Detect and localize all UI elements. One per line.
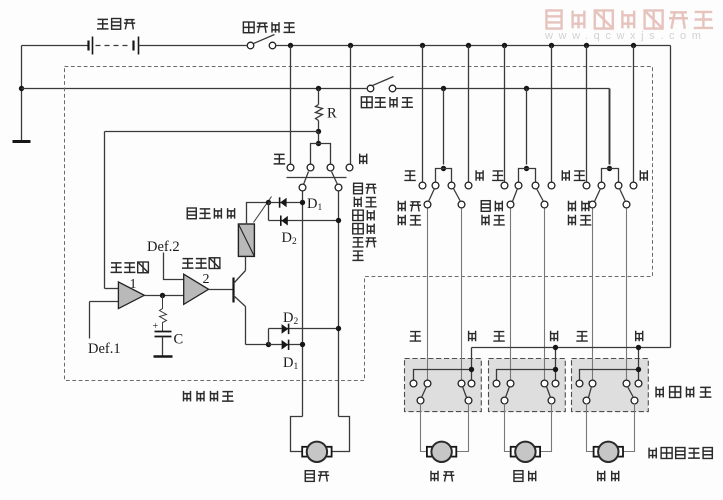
wire rr-box down wire from master	[626, 209, 628, 381]
wire rf-switch stem	[443, 89, 445, 165]
svg-text:D2: D2	[283, 310, 298, 327]
wire rr-switch slant right	[620, 189, 626, 202]
motor 左前	[302, 447, 308, 457]
node D1 to left output	[300, 200, 305, 205]
wire battery left lead / chassis lead	[22, 45, 89, 47]
watermark 汽车维修技术网	[546, 10, 561, 28]
wire master stem bracket	[311, 144, 331, 165]
wire rr-switch bracket	[602, 169, 619, 183]
window switch box lr-box	[489, 359, 566, 412]
rf-switch contacts	[419, 182, 426, 189]
node lr-down tap	[549, 43, 554, 48]
wire comp1 lower input	[90, 301, 119, 303]
wire master output left	[302, 192, 304, 417]
wire master down feed	[350, 46, 352, 165]
svg-text:D1: D1	[283, 355, 298, 372]
wire rf-box up wire from master	[427, 209, 429, 381]
label 右前 motor	[431, 471, 438, 482]
label master 降	[360, 154, 367, 165]
node lr stem tap	[524, 86, 529, 91]
wire rr-switch slant left	[595, 189, 601, 202]
node comp1 output	[160, 293, 165, 298]
node lr-box jumper	[553, 367, 558, 372]
label rf-box 降	[469, 331, 476, 342]
wire rf-switch slant right	[454, 189, 461, 202]
ground	[13, 140, 31, 143]
node rf stem tap	[441, 86, 446, 91]
node D2 to right output	[336, 218, 341, 223]
dashed box master switch and control unit	[65, 67, 653, 381]
lr-box contacts	[493, 380, 500, 387]
wire window power line	[472, 347, 671, 349]
node rf-up tap	[420, 43, 425, 48]
svg-text:R: R	[327, 106, 337, 122]
node rr-down tap	[631, 43, 636, 48]
wire coil diagonal	[254, 197, 272, 223]
node lr-up tap	[502, 43, 507, 48]
wire lr-switch bracket	[519, 169, 536, 183]
wire rr-box jumper	[580, 370, 639, 381]
label rr-box 降	[636, 331, 643, 342]
label rf-switch name	[398, 201, 405, 211]
wire rf-box down wire from master	[461, 209, 463, 381]
label 车窗电动机	[649, 448, 656, 459]
rf-box moving contacts	[417, 397, 424, 404]
diode D2 top	[269, 220, 339, 222]
wire master stem	[318, 132, 320, 144]
diode D2 bottom	[269, 328, 339, 330]
node resistor tap	[316, 86, 321, 91]
label 比较器 1	[111, 263, 123, 273]
wire comp2 output	[209, 289, 234, 291]
wire lr-box motor left	[505, 404, 511, 452]
diode D1 top	[269, 202, 302, 204]
label lr-box 降	[551, 331, 558, 342]
label 主控开关	[184, 391, 191, 402]
wire lr-switch slant left	[513, 189, 518, 202]
wire lr-switch stem	[526, 89, 528, 165]
label rf-box 升	[410, 332, 422, 342]
node master stem	[316, 141, 321, 146]
wire rf-box jumper	[414, 370, 472, 381]
wire lr-box up wire from master	[510, 209, 512, 381]
label rf-switch 升	[404, 171, 416, 181]
node rf-switch stem	[441, 166, 446, 171]
label 蓄电池	[97, 19, 109, 29]
label 锁止开关	[361, 97, 372, 108]
resistor to capacitor	[160, 296, 167, 332]
node rf-down tap	[466, 43, 471, 48]
node D1 bottom right	[300, 342, 305, 347]
wire ignition switch to top rail	[277, 45, 671, 47]
wire rr-box slant right	[628, 387, 634, 398]
label 左前 motor	[305, 471, 314, 482]
label rr-box 升	[576, 332, 588, 342]
label 左前开关及车窗控制单元	[354, 183, 363, 193]
node rr-box power tap	[636, 345, 641, 350]
node emitter junction	[266, 342, 271, 347]
wire Def.2 input	[164, 253, 184, 280]
lr-box moving contacts	[501, 397, 508, 404]
rr-box moving contacts	[583, 397, 590, 404]
wire comp1 upper input	[105, 288, 119, 290]
wire rr-box power feed	[638, 348, 640, 381]
wire lr-box slant right	[547, 387, 551, 398]
svg-text:Def.1: Def.1	[88, 341, 121, 357]
wire rr-switch down feed	[633, 46, 635, 183]
solenoid coil	[238, 224, 254, 256]
label lr-switch 降	[562, 170, 569, 181]
window switch box rr-box	[572, 359, 649, 412]
label 右后 motor	[598, 471, 605, 482]
wire rf-switch bracket	[436, 169, 452, 183]
battery 蓄电池	[87, 41, 89, 51]
svg-text:C: C	[174, 332, 184, 348]
lr-switch moving contacts	[507, 201, 514, 208]
svg-text:2: 2	[203, 272, 210, 287]
node lr-box power tap	[553, 345, 558, 350]
node coil junction	[266, 200, 271, 205]
rr-switch moving contacts	[589, 201, 596, 208]
wire master slant left	[304, 172, 309, 185]
wire lr-switch up feed	[504, 46, 506, 183]
wire lr-box slant left	[506, 387, 510, 398]
wire lr-box power feed	[555, 348, 557, 381]
label 电磁丝圈	[187, 208, 196, 219]
node resistor bottom	[316, 129, 321, 134]
label rr-switch 升	[574, 171, 586, 181]
lock switch 锁止开关	[367, 85, 374, 92]
window switch box rf-box	[405, 359, 482, 412]
op-amp comparator 2	[184, 274, 209, 304]
rr-box contacts	[576, 380, 583, 387]
rr-switch contacts	[583, 182, 590, 189]
label rr-switch name	[568, 201, 575, 211]
wire master slant right	[332, 172, 338, 185]
wire rf-switch slant left	[429, 189, 435, 202]
motor 右后	[594, 447, 600, 457]
label lr-switch 升	[492, 171, 504, 181]
wire rr-box motor left	[587, 404, 594, 452]
wire rr-box up wire from master	[592, 209, 594, 381]
label rf-switch 降	[476, 170, 483, 181]
wire lr-switch slant right	[537, 189, 544, 202]
wire rr-switch stem	[609, 89, 611, 165]
wire resistor node to comparator input	[105, 131, 319, 133]
wire lr-box motor right	[541, 404, 552, 452]
master rocker bar	[287, 177, 347, 179]
node master up tap	[348, 43, 353, 48]
ignition switch 点火开关	[247, 42, 254, 49]
wire lr-box down wire from master	[544, 209, 546, 381]
wire rf-box slant right	[463, 387, 467, 398]
label 左后 motor	[514, 471, 523, 482]
transistor Q1	[232, 278, 234, 303]
label lr-box 升	[493, 332, 505, 342]
rf-switch moving contacts	[424, 201, 431, 208]
svg-text:www.qcwxjs.com: www.qcwxjs.com	[544, 30, 707, 42]
node battery negative junction	[19, 86, 24, 91]
wire ground rail right	[396, 88, 610, 90]
wire coil top	[247, 203, 269, 225]
wire coil junction down	[268, 203, 270, 221]
label lr-switch name	[481, 201, 490, 212]
wire emitter to D2 row	[268, 329, 270, 345]
lr-switch contacts	[501, 182, 508, 189]
wire master up feed	[290, 46, 292, 165]
wire rr-switch up feed	[586, 46, 588, 183]
op-amp comparator 1	[118, 282, 144, 309]
wire right feeder down	[670, 46, 672, 348]
label master 升	[274, 154, 286, 164]
capacitor ground	[154, 355, 173, 357]
rf-box contacts	[410, 380, 417, 387]
label 比较器 2	[182, 259, 194, 269]
wire lr-box jumper	[497, 370, 556, 381]
wire battery to ignition switch	[139, 45, 247, 47]
motor 右前	[427, 447, 433, 457]
master moving contacts	[299, 184, 306, 191]
wire comp1 output	[145, 295, 184, 297]
wire rf-box motor right	[457, 404, 469, 452]
node rr-up tap	[584, 43, 589, 48]
diode D1 bottom	[269, 344, 302, 346]
capacitor C	[155, 331, 172, 333]
wire lr-switch down feed	[551, 46, 553, 183]
label 车窗开关	[656, 387, 663, 398]
motor 左后	[511, 447, 517, 457]
wire rf-switch down feed	[468, 46, 470, 183]
wire rr-box motor right	[624, 404, 635, 452]
wire rf-switch up feed	[422, 46, 424, 183]
svg-text:D2: D2	[282, 230, 297, 247]
resistor R	[318, 89, 320, 105]
node ignition output	[288, 43, 293, 48]
wire rr-box slant left	[589, 387, 592, 398]
node rr-box jumper	[636, 367, 641, 372]
svg-text:D1: D1	[307, 196, 322, 213]
wire rf-box power feed	[471, 348, 473, 381]
svg-text:+: +	[153, 321, 159, 332]
node rf-box jumper	[469, 367, 474, 372]
node D2 bottom right	[336, 326, 341, 331]
wire master output right	[338, 192, 340, 417]
node lr-switch stem	[524, 166, 529, 171]
label rr-switch 降	[640, 170, 647, 181]
wire rf-box motor left	[421, 404, 427, 452]
label 点火开关	[243, 22, 254, 33]
wire ground rail left	[22, 88, 367, 90]
wire rf-box slant left	[422, 387, 427, 398]
master switch contacts	[287, 164, 294, 171]
node rr-switch stem	[607, 166, 612, 171]
